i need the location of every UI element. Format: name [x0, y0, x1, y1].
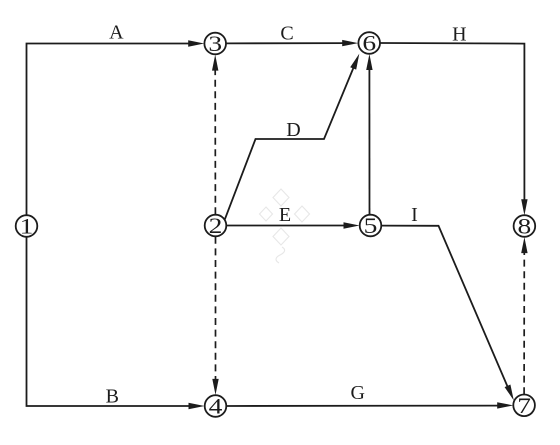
wire C: node3 to node6 [226, 42, 346, 44]
dashed dummy 2 to 3 [214, 66, 216, 214]
arrow H into node8 top [521, 199, 527, 215]
node 4 [205, 395, 227, 417]
arrow E into node5 [344, 222, 360, 228]
svg-text:D: D [286, 119, 300, 141]
dashed dummy 2 to 4 [215, 237, 217, 386]
svg-text:1: 1 [20, 215, 34, 239]
node 8 [514, 215, 536, 237]
arrow dummy into node8 bottom [521, 237, 527, 253]
arrow dummy into node3 bottom [212, 55, 218, 71]
svg-text:8: 8 [518, 215, 532, 239]
arrow C into node6 [342, 40, 358, 46]
node 6 [358, 32, 380, 54]
node 7 [513, 395, 535, 417]
node 2 [205, 215, 227, 237]
edge letter labels [106, 22, 467, 408]
arrow D into node6 [350, 54, 359, 70]
arrow A into node3 [188, 40, 204, 46]
arrow G into node7 [497, 402, 513, 408]
svg-text:I: I [411, 204, 418, 226]
node 3 [204, 33, 226, 55]
svg-text:3: 3 [208, 32, 222, 56]
svg-text:C: C [280, 23, 293, 45]
watermark [260, 189, 310, 263]
svg-text:G: G [350, 382, 364, 404]
arrow B into node4 [189, 403, 205, 409]
arrow vertical into node6 bottom [366, 54, 372, 70]
dashed dummy 7 to 8 [523, 248, 525, 394]
wire G: node4 to node7 [227, 405, 499, 407]
wire A: node1 up and right to node3 [27, 44, 193, 216]
node numbers [20, 32, 532, 419]
wire B: node1 down and right to node4 [27, 237, 193, 406]
wire I: node5 right then diagonal to node7 [382, 226, 508, 387]
wire D: node2 up steps to node6 [225, 58, 358, 219]
svg-text:H: H [452, 24, 466, 46]
svg-text:4: 4 [209, 395, 223, 419]
arrowheads [188, 40, 527, 409]
node 5 [360, 215, 382, 237]
svg-text:5: 5 [364, 214, 378, 238]
arrow dummy into node4 top [212, 379, 218, 395]
wire H: node6 right and down to node8 [380, 43, 524, 201]
svg-text:A: A [109, 22, 124, 44]
svg-text:2: 2 [209, 214, 223, 238]
arrow I into node7 [505, 385, 514, 401]
svg-text:7: 7 [517, 394, 531, 418]
svg-text:E: E [279, 204, 291, 226]
svg-text:6: 6 [362, 32, 376, 56]
svg-text:B: B [106, 386, 119, 408]
node 1 [16, 215, 38, 237]
wire E: node2 to node5 [227, 225, 347, 227]
wire 5 to 6 vertical [368, 68, 370, 214]
